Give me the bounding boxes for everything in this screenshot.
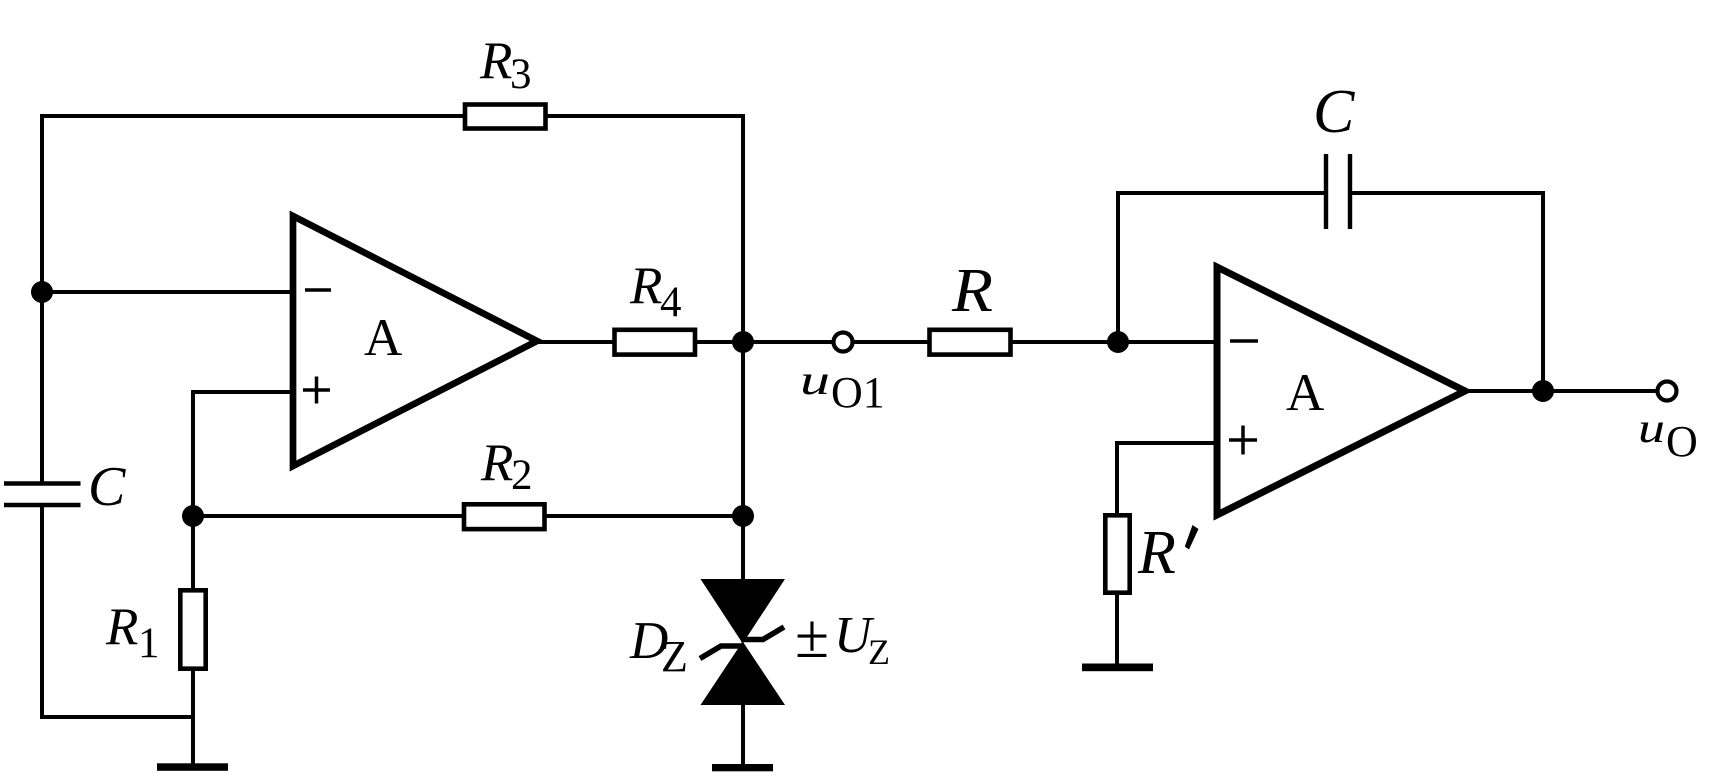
svg-text:2: 2 bbox=[511, 452, 533, 499]
label R3 bbox=[479, 32, 532, 98]
wire C feedback left vertical bbox=[1116, 191, 1120, 344]
resistor R (input of integrator) bbox=[930, 330, 1011, 355]
svg-text:u: u bbox=[800, 358, 830, 404]
junction node (op-amp2 output) bbox=[1532, 380, 1554, 402]
svg-text:u: u bbox=[1638, 406, 1665, 452]
junction node (R4 right) bbox=[732, 331, 754, 353]
junction node (integrator input) bbox=[1107, 331, 1129, 353]
wire non-inverting input op-amp 1 bbox=[193, 390, 296, 394]
wire left rail lower bbox=[40, 505, 44, 719]
svg-text:R: R bbox=[479, 32, 512, 90]
svg-text:R: R bbox=[951, 257, 993, 325]
label R1 bbox=[105, 598, 160, 667]
wire zener to ground bbox=[741, 703, 745, 766]
wire op-amp2 output bbox=[1465, 389, 1658, 393]
terminal uO bbox=[1658, 382, 1677, 401]
svg-text:C: C bbox=[1313, 78, 1355, 146]
resistor R' bbox=[1105, 515, 1129, 592]
resistor R3 bbox=[465, 105, 546, 129]
svg-text:A: A bbox=[1286, 364, 1324, 422]
label ±UZ bbox=[795, 603, 890, 672]
wire C feedback top right bbox=[1349, 191, 1545, 195]
label R4 bbox=[629, 257, 682, 326]
svg-text:R: R bbox=[480, 434, 513, 492]
wire op-amp1 output row through R4 to R bbox=[537, 340, 1219, 344]
svg-text:Z: Z bbox=[868, 632, 890, 672]
capacitor C (integrator feedback) bbox=[1326, 154, 1350, 229]
ground (below R') bbox=[1082, 664, 1153, 672]
wire top feedback R3 bbox=[40, 114, 745, 118]
label uO1 bbox=[800, 358, 885, 417]
svg-text:Z: Z bbox=[661, 632, 688, 681]
svg-text:A: A bbox=[364, 309, 402, 367]
wire R' rail lower bbox=[1115, 593, 1119, 666]
op-amp A (first stage) bbox=[293, 216, 537, 466]
svg-text:1: 1 bbox=[138, 620, 160, 667]
junction node (inverting input rail) bbox=[31, 281, 53, 303]
junction node (R1 top / R2 left) bbox=[182, 505, 204, 527]
label R2 bbox=[480, 434, 533, 499]
wire non-inverting input op-amp 2 bbox=[1117, 441, 1220, 445]
wire bottom left bbox=[40, 715, 195, 719]
capacitor C (left integrator) bbox=[4, 484, 81, 506]
svg-text:R: R bbox=[629, 257, 662, 315]
svg-text:4: 4 bbox=[660, 279, 682, 326]
svg-text:R: R bbox=[105, 598, 138, 656]
wire R1 rail lower bbox=[191, 669, 195, 765]
resistor R1 bbox=[180, 590, 205, 668]
svg-text:±: ± bbox=[795, 603, 829, 671]
svg-text:O: O bbox=[1666, 417, 1698, 466]
op-amp A (second stage) bbox=[1217, 267, 1465, 515]
label uO bbox=[1638, 406, 1698, 466]
svg-text:C: C bbox=[88, 456, 126, 518]
label R' bbox=[1137, 519, 1199, 587]
svg-text:O1: O1 bbox=[831, 368, 885, 417]
wire right rail x=743 bbox=[741, 114, 745, 581]
wire R' rail upper bbox=[1115, 441, 1119, 514]
wire C feedback right vertical bbox=[1541, 191, 1545, 393]
svg-text:R: R bbox=[1137, 519, 1176, 587]
label DZ bbox=[629, 612, 688, 681]
wire inverting input op-amp 1 bbox=[40, 290, 296, 294]
ground (below DZ) bbox=[712, 764, 773, 771]
ground (below R1) bbox=[157, 763, 228, 771]
svg-text:3: 3 bbox=[510, 51, 532, 98]
resistor R2 bbox=[464, 504, 545, 529]
terminal uO1 bbox=[834, 333, 853, 352]
wire R2 row bbox=[193, 514, 743, 518]
wire left rail upper bbox=[40, 114, 44, 483]
junction node (R2 right / DZ top) bbox=[732, 505, 754, 527]
zener diode pair DZ bbox=[700, 579, 785, 705]
resistor R4 bbox=[615, 330, 696, 355]
wire R1 rail upper bbox=[191, 390, 195, 590]
wire C feedback top left bbox=[1116, 191, 1327, 195]
